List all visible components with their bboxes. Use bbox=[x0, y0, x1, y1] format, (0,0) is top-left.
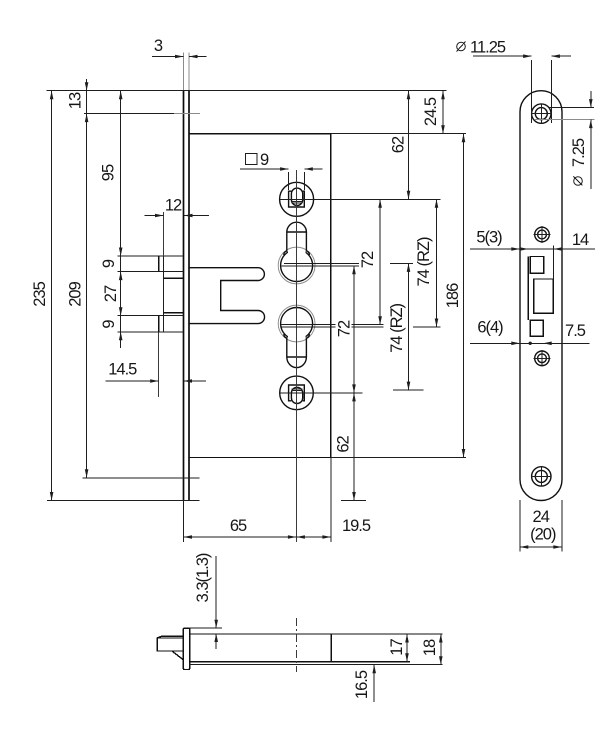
svg-text:72: 72 bbox=[359, 251, 377, 268]
svg-text:9: 9 bbox=[100, 259, 118, 268]
svg-text:5(3): 5(3) bbox=[476, 228, 502, 246]
svg-text:72: 72 bbox=[335, 320, 353, 337]
svg-text:7.5: 7.5 bbox=[565, 322, 586, 340]
svg-text:27: 27 bbox=[102, 285, 120, 302]
svg-text:7.25: 7.25 bbox=[570, 138, 588, 167]
svg-text:(20): (20) bbox=[530, 525, 556, 543]
svg-text:62: 62 bbox=[389, 136, 407, 153]
svg-text:16.5: 16.5 bbox=[353, 670, 371, 699]
svg-text:6(4): 6(4) bbox=[477, 318, 503, 336]
svg-text:18: 18 bbox=[421, 639, 439, 656]
svg-text:11.25: 11.25 bbox=[470, 38, 506, 56]
svg-text:186: 186 bbox=[444, 283, 462, 308]
svg-text:65: 65 bbox=[230, 517, 247, 535]
svg-text:3: 3 bbox=[154, 37, 163, 55]
svg-text:74 (RZ): 74 (RZ) bbox=[388, 303, 406, 352]
svg-text:19.5: 19.5 bbox=[342, 517, 371, 535]
svg-text:9: 9 bbox=[260, 151, 269, 169]
svg-text:13: 13 bbox=[66, 92, 84, 109]
svg-text:235: 235 bbox=[31, 281, 49, 306]
svg-text:209: 209 bbox=[66, 281, 84, 306]
svg-text:74 (RZ): 74 (RZ) bbox=[415, 237, 433, 286]
svg-text:14: 14 bbox=[572, 231, 589, 249]
svg-text:95: 95 bbox=[99, 164, 117, 181]
svg-text:17: 17 bbox=[388, 639, 406, 656]
svg-text:62: 62 bbox=[335, 436, 353, 453]
svg-text:12: 12 bbox=[165, 196, 182, 214]
svg-text:24.5: 24.5 bbox=[422, 97, 440, 126]
svg-text:24: 24 bbox=[533, 508, 550, 526]
svg-text:3.3(1.3): 3.3(1.3) bbox=[194, 553, 212, 602]
svg-text:14.5: 14.5 bbox=[108, 361, 137, 379]
svg-text:9: 9 bbox=[100, 320, 118, 329]
